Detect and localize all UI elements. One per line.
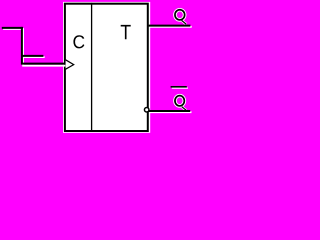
pin label T bbox=[121, 25, 131, 39]
output wire Q-bar shadow bbox=[149, 111, 191, 113]
node junction on Q-bar pin bbox=[144, 107, 149, 112]
input wire stub bbox=[21, 55, 43, 57]
input wire segment 3 (horizontal to clock pin) bbox=[21, 63, 65, 65]
clock edge triangle bbox=[66, 60, 74, 69]
output label Q-bar overline bbox=[171, 87, 188, 88]
pin label C bbox=[73, 35, 84, 48]
output label Q bbox=[175, 10, 186, 25]
input wire segment 1 (horizontal top) bbox=[2, 27, 23, 29]
section divider bbox=[91, 3, 93, 132]
output wire Q bbox=[149, 25, 191, 27]
T flip-flop U1 body bbox=[63, 2, 150, 133]
output wire Q-bar bbox=[148, 110, 190, 112]
output label Q-bar bbox=[175, 96, 186, 111]
input wire segment 2 (vertical) bbox=[21, 27, 23, 65]
input wire shadow bbox=[3, 29, 65, 66]
output wire Q shadow bbox=[150, 26, 192, 28]
